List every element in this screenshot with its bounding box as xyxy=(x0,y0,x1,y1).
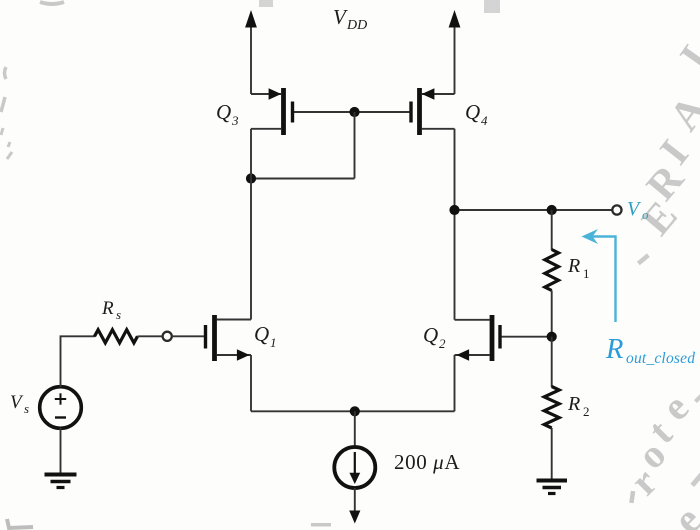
node Vo terminal circle xyxy=(612,205,621,214)
svg-text:V: V xyxy=(10,392,24,413)
svg-text:R: R xyxy=(101,298,114,319)
svg-text:L: L xyxy=(672,28,700,77)
svg-text:Q: Q xyxy=(216,100,231,124)
node VDD label xyxy=(333,5,367,33)
resistor Rs xyxy=(95,330,138,343)
svg-text:4: 4 xyxy=(481,113,488,128)
wire Vs to Rs xyxy=(61,336,96,387)
svg-text:200 μA: 200 μA xyxy=(394,450,460,474)
ground Vs xyxy=(45,475,77,488)
transistor Q3 (PMOS) xyxy=(251,88,293,135)
wire input node to Q1 gate xyxy=(172,335,204,337)
node tail junction dot xyxy=(350,406,360,416)
node feedback junction dot xyxy=(547,332,557,342)
wire R1 bottom lead xyxy=(551,291,553,338)
svg-text:R: R xyxy=(605,334,623,365)
label Q4 xyxy=(465,100,488,128)
svg-text:Q: Q xyxy=(423,323,438,347)
transistor Q1 (NMOS) xyxy=(206,315,252,361)
wire output node line xyxy=(455,209,613,211)
wire R2 bottom lead xyxy=(551,428,553,479)
wire VDD supply left arrow xyxy=(250,26,252,94)
label R1 xyxy=(567,255,590,281)
svg-text:R: R xyxy=(567,255,580,277)
wire diode connection vertical xyxy=(354,112,356,179)
arrowhead negative rail xyxy=(349,511,360,524)
current source I1 200uA xyxy=(334,447,375,488)
wire R1 top lead xyxy=(551,210,553,250)
svg-text:3: 3 xyxy=(231,113,239,128)
wire diode connection horizontal xyxy=(251,178,355,180)
label Vs xyxy=(10,392,29,416)
svg-text:s: s xyxy=(116,307,121,322)
wire tail line xyxy=(251,410,455,412)
wire R2 top lead xyxy=(551,337,553,387)
svg-text:Q: Q xyxy=(465,100,480,124)
voltage source Vs xyxy=(40,387,82,429)
transistor Q4 (PMOS) xyxy=(411,88,455,135)
svg-text:1: 1 xyxy=(583,266,590,281)
wire right branch Q4 drain to Q2 drain xyxy=(454,129,456,320)
svg-text:DD: DD xyxy=(346,18,367,33)
label Vo xyxy=(627,198,649,222)
arrowhead VDD right xyxy=(449,10,461,28)
wire VDD supply right arrow xyxy=(454,26,456,94)
resistor R2 xyxy=(544,387,559,429)
node input terminal circle xyxy=(163,332,172,341)
wire current source to negative rail arrow xyxy=(354,488,356,512)
resistor R1 xyxy=(545,250,559,291)
wire Rs to input node xyxy=(138,335,163,337)
svg-text:R: R xyxy=(567,393,580,415)
ground R2 xyxy=(537,481,568,494)
label Rs xyxy=(101,298,121,322)
svg-text:2: 2 xyxy=(439,336,446,351)
label Q1 xyxy=(254,322,277,350)
svg-text:1: 1 xyxy=(270,335,277,350)
wire Q2 gate to feedback node xyxy=(502,336,552,338)
wire Vs to ground xyxy=(60,428,62,473)
svg-text:s: s xyxy=(24,401,29,416)
annotation arrow Rout_closed (cyan) xyxy=(582,229,616,322)
svg-text:o: o xyxy=(642,207,649,222)
node junction dot at R1 top xyxy=(547,205,557,215)
arrowhead VDD left xyxy=(245,10,257,28)
label R2 xyxy=(567,393,590,419)
svg-text:out_closed: out_closed xyxy=(626,350,695,367)
svg-text:2: 2 xyxy=(583,404,590,419)
svg-text:Q: Q xyxy=(254,322,269,346)
node Q3 drain junction dot xyxy=(246,173,256,183)
wire left branch Q3 drain to Q1 drain xyxy=(250,129,252,320)
wire Q1 source down xyxy=(250,355,252,411)
label Rout_closed xyxy=(605,334,695,367)
wire gate line Q3-Q4 xyxy=(294,111,410,113)
svg-text:A: A xyxy=(661,87,700,139)
svg-text:V: V xyxy=(333,5,348,29)
node junction dot at Q4 drain / output xyxy=(449,205,459,215)
transistor Q2 (NMOS) xyxy=(455,315,501,361)
wire tail to current source xyxy=(354,411,356,447)
node gate junction dot xyxy=(349,107,359,117)
svg-text:e: e xyxy=(665,497,700,530)
label Q2 xyxy=(423,323,446,351)
wire Q2 source down xyxy=(454,355,456,411)
label Q3 xyxy=(216,100,239,128)
